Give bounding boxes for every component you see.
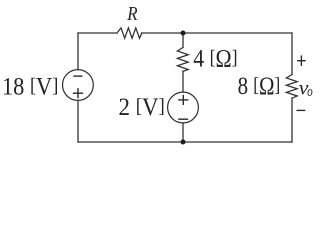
svg-text:18 [V]: 18 [V]: [2, 73, 58, 100]
V2 plus sign inside circle: [178, 99, 188, 101]
wire middle between resistor and source: [182, 71, 184, 92]
source V2 2V circle: [168, 92, 199, 123]
wire middle vertical bottom: [182, 123, 184, 142]
resistor R2 4 ohm: [177, 48, 188, 72]
source V1 18V circle: [63, 70, 94, 101]
wire left vertical top: [77, 33, 79, 70]
vo polarity minus sign: [297, 109, 306, 111]
V2 minus sign inside circle: [178, 118, 188, 120]
vo polarity plus sign: [297, 60, 306, 62]
svg-text:o: o: [307, 84, 313, 100]
wire left vertical bottom: [77, 100, 79, 142]
V1 plus sign inside circle: [73, 92, 83, 94]
wire top-left segment: [78, 32, 117, 34]
wire middle vertical top: [182, 33, 184, 48]
junction node dot top: [181, 31, 186, 36]
junction node dot bottom: [181, 140, 186, 145]
resistor R: [117, 28, 142, 38]
wire top-middle segment: [142, 32, 292, 34]
wire bottom segment: [78, 141, 292, 143]
wire right vertical bottom: [291, 98, 293, 142]
V1 minus sign inside circle: [73, 75, 82, 77]
svg-text:8 [Ω]: 8 [Ω]: [238, 73, 281, 100]
svg-text:R: R: [126, 3, 137, 25]
svg-text:2 [V]: 2 [V]: [119, 94, 165, 121]
svg-text:4 [Ω]: 4 [Ω]: [193, 45, 237, 72]
resistor R3 8 ohm: [286, 75, 297, 99]
wire right vertical top: [291, 33, 293, 75]
